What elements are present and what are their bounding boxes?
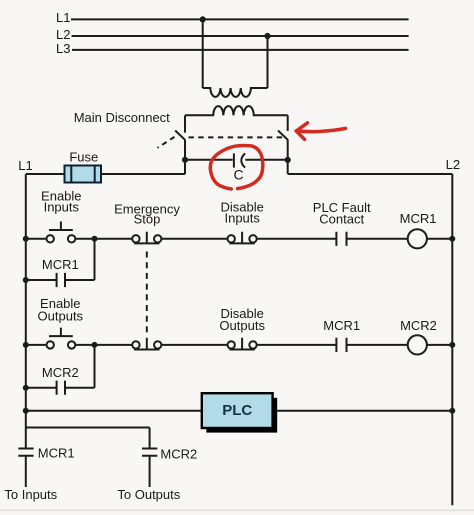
- svg-text:MCR1: MCR1: [323, 318, 360, 333]
- svg-text:Contact: Contact: [319, 211, 364, 226]
- svg-text:Main Disconnect: Main Disconnect: [74, 110, 170, 125]
- svg-text:Fuse: Fuse: [69, 149, 98, 164]
- svg-text:MCR1: MCR1: [400, 211, 437, 226]
- svg-text:PLC: PLC: [222, 402, 252, 419]
- svg-text:L2: L2: [56, 27, 70, 42]
- svg-text:To Outputs: To Outputs: [117, 487, 180, 502]
- svg-text:Stop: Stop: [134, 212, 161, 227]
- svg-text:C: C: [233, 167, 243, 183]
- svg-text:Outputs: Outputs: [38, 309, 84, 324]
- svg-text:L1: L1: [56, 10, 70, 25]
- svg-text:Inputs: Inputs: [224, 211, 260, 226]
- svg-text:MCR2: MCR2: [160, 447, 197, 462]
- svg-text:MCR1: MCR1: [42, 257, 79, 272]
- svg-text:MCR1: MCR1: [38, 446, 75, 461]
- svg-text:MCR2: MCR2: [42, 365, 79, 380]
- svg-text:MCR2: MCR2: [400, 318, 437, 333]
- svg-text:To Inputs: To Inputs: [4, 487, 57, 502]
- svg-text:L1: L1: [18, 158, 32, 173]
- svg-text:L3: L3: [56, 41, 70, 56]
- svg-text:Inputs: Inputs: [44, 200, 80, 215]
- svg-text:Outputs: Outputs: [219, 318, 265, 333]
- svg-text:L2: L2: [446, 157, 460, 172]
